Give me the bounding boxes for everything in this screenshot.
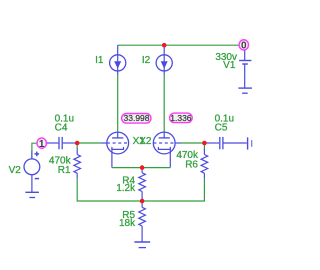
wire top rail <box>118 44 239 46</box>
svg-text:1.2k: 1.2k <box>116 183 136 194</box>
annotation 33.998 <box>122 114 151 124</box>
node 1 <box>37 138 46 148</box>
svg-text:V2: V2 <box>9 165 22 176</box>
svg-text:C5: C5 <box>215 123 228 134</box>
wire X2 grid to junction <box>181 142 204 144</box>
svg-text:R6: R6 <box>185 159 198 170</box>
svg-text:I1: I1 <box>95 55 104 66</box>
resistor R6 <box>201 143 208 179</box>
node 0 <box>239 40 248 50</box>
svg-text:33.998: 33.998 <box>124 113 150 123</box>
wire I1 to X1 plate <box>117 75 119 131</box>
ground C5 rotated <box>248 137 252 149</box>
triode X1 <box>101 131 129 167</box>
annotation 1.336 <box>170 113 193 123</box>
junction R6 C5 node <box>202 141 207 146</box>
wire V2 to node 1 <box>32 143 37 159</box>
triode X2 <box>153 131 181 167</box>
wire cathode rail <box>112 167 170 169</box>
svg-text:1: 1 <box>39 139 45 150</box>
ground R5 <box>134 242 150 248</box>
svg-text:X2: X2 <box>139 136 152 147</box>
junction C4 R1 node <box>75 141 80 146</box>
resistor R4 <box>139 168 146 201</box>
svg-text:1.336: 1.336 <box>170 113 192 123</box>
junction top rail at I2 <box>162 43 167 48</box>
junction bottom rail R4 R5 <box>140 199 145 204</box>
resistor R5 <box>139 201 146 242</box>
capacitor C5 <box>206 137 247 149</box>
svg-text:18k: 18k <box>119 218 136 229</box>
svg-text:C4: C4 <box>55 123 68 134</box>
wire R1 bottom to rail <box>77 179 142 201</box>
ground V1 <box>238 88 252 93</box>
junction cathode rail R4 <box>140 165 145 170</box>
current source I2 <box>156 45 172 75</box>
wire R6 bottom to rail <box>142 179 204 201</box>
ground V2 <box>25 192 39 197</box>
svg-text:I2: I2 <box>142 55 151 66</box>
wire C4 junction to X1 grid <box>76 142 101 144</box>
battery V1 <box>239 50 251 88</box>
current source I1 <box>110 45 126 75</box>
svg-text:R1: R1 <box>58 165 71 176</box>
svg-text:V1: V1 <box>223 60 236 71</box>
wire I2 to X2 plate <box>163 75 165 131</box>
capacitor C4 <box>47 137 76 149</box>
resistor R1 <box>74 143 81 179</box>
svg-text:0: 0 <box>241 41 247 52</box>
source V2 <box>24 151 40 193</box>
